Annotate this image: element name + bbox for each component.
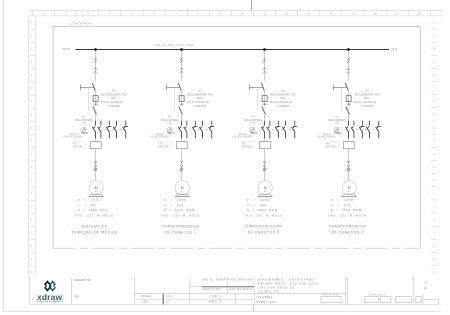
svg-text:L SC=FILTRAGEM: L SC=FILTRAGEM — [63, 136, 82, 139]
motor M1 base pedestal — [89, 194, 103, 197]
motor M4 base pedestal — [342, 194, 356, 197]
svg-text:SAM CARVALHO: SAM CARVALHO — [229, 278, 252, 281]
linkage dashes contact row 3 — [272, 128, 291, 130]
aux label under contactor 3 — [232, 134, 251, 138]
svg-text:SECCIONADORA FUS.: SECCIONADORA FUS. — [354, 93, 381, 96]
svg-text:DESENHO TEC.: DESENHO TEC. — [74, 279, 92, 282]
svg-text:FL.: FL. — [425, 281, 429, 284]
svg-text:In 100=63A: In 100=63A — [194, 105, 207, 108]
svg-text:In = 12A: In = 12A — [164, 203, 185, 207]
fuse of Q3 — [264, 96, 266, 102]
svg-text:M: M — [433, 179, 435, 182]
cable marks to motor 1 — [94, 161, 97, 171]
motor M3 circle — [258, 181, 272, 195]
branch 3 name label — [245, 224, 283, 234]
title block dividers — [30, 277, 439, 305]
svg-text:-Q3: -Q3 — [280, 90, 285, 93]
contactor K1 coil circle — [81, 128, 86, 133]
svg-text:DE CANECOS 3: DE CANECOS 3 — [332, 230, 364, 234]
aux label under contactor 2 — [149, 134, 168, 138]
drawing frame top — [53, 26, 420, 28]
svg-text:3P F.10: 63A-80A (F): 3P F.10: 63A-80A (F) — [187, 101, 210, 104]
svg-text:TOMOÇÃO DE MEDIAS: TOMOÇÃO DE MEDIAS — [71, 229, 118, 234]
motor 4 spec text — [328, 198, 366, 217]
top ruler band — [29, 11, 444, 16]
xdraw logo emblem — [45, 282, 55, 291]
fuse of Q4 — [348, 96, 350, 102]
svg-text:DE CANECOS 1: DE CANECOS 1 — [165, 230, 197, 234]
svg-text:14: 14 — [329, 12, 333, 16]
svg-text:NH1: NH1 — [111, 97, 117, 100]
contactor K1 label text — [75, 117, 93, 125]
svg-text:1:500: 1:500 — [142, 300, 149, 303]
svg-text:SISTEMA DE: SISTEMA DE — [82, 224, 108, 228]
drawing frame bottom dashed — [53, 247, 420, 249]
svg-text:L SC=FILTRAGEM: L SC=FILTRAGEM — [149, 136, 168, 139]
overload relay F4 text box — [325, 142, 338, 149]
overload relay F4 box on wire — [343, 142, 354, 149]
svg-text:NSC+CONTENS: NSC+CONTENS — [328, 120, 346, 122]
svg-text:O: O — [433, 153, 435, 156]
switch T-bar handle Q3 — [249, 85, 263, 91]
svg-text:SECCIONADORA FUS.: SECCIONADORA FUS. — [101, 93, 128, 96]
motor M4 circle — [342, 181, 356, 195]
svg-text:TRANSPORTADOR: TRANSPORTADOR — [329, 224, 367, 228]
motor M2 base pedestal — [175, 194, 189, 197]
svg-text:DESENHO Nº: DESENHO Nº — [369, 293, 386, 296]
svg-text:TAG: 231 M MOL3: TAG: 231 M MOL3 — [244, 213, 282, 217]
revision boxes — [321, 297, 421, 303]
value text block Q1 — [101, 90, 128, 108]
svg-text:RT=7,6A: RT=7,6A — [242, 145, 252, 148]
svg-text:SECCIONADORA FUS.: SECCIONADORA FUS. — [187, 93, 214, 96]
motor 2 spec text — [161, 198, 199, 217]
svg-text:RT=7,6A: RT=7,6A — [73, 145, 83, 148]
linkage dashes contact row 1 — [103, 128, 122, 130]
svg-text:N: N — [434, 166, 436, 169]
wire branch 3 drop from bus — [264, 50, 266, 182]
dark approval row line — [202, 286, 255, 288]
svg-text:REF.:: REF.: — [75, 296, 81, 299]
svg-text:N. FL.: N. FL. — [166, 295, 173, 298]
svg-text:NH1: NH1 — [364, 97, 370, 100]
title block texts — [74, 278, 252, 303]
fold mark top — [250, 0, 252, 11]
contactor K2 coil circle — [167, 128, 172, 133]
switch Q3 upper blade — [261, 83, 264, 91]
svg-text:U: U — [434, 74, 436, 77]
left ruler band — [29, 16, 35, 277]
branch 2 name label — [162, 224, 200, 234]
svg-text:In 100=63A: In 100=63A — [277, 105, 290, 108]
svg-text:TAG: 231 M MOLD: TAG: 231 M MOLD — [75, 213, 114, 217]
linkage dashes contact row 2 — [189, 128, 208, 130]
svg-text:SOLUTIONS IN DRAWINGS: SOLUTIONS IN DRAWINGS — [36, 300, 63, 303]
drawing frame left — [52, 27, 54, 249]
svg-text:3P F.10: 63A-80A (F): 3P F.10: 63A-80A (F) — [101, 101, 124, 104]
svg-text:2,2A: 2,2A — [334, 122, 339, 125]
svg-text:-Q4: -Q4 — [364, 90, 369, 93]
branch 1 name label — [71, 224, 118, 234]
motor M1 circle — [89, 181, 103, 195]
overload relay F2 box on wire — [176, 142, 187, 149]
mechanical linkage line Q2 — [173, 87, 175, 110]
svg-text:P = 1CV+: P = 1CV+ — [78, 198, 101, 202]
svg-text:11: 11 — [263, 12, 266, 16]
svg-text:-Q1: -Q1 — [111, 90, 116, 93]
svg-text:R: R — [434, 113, 436, 116]
svg-text:PROJETO Nº: PROJETO Nº — [323, 293, 340, 296]
switch Q4 lower blade — [346, 107, 350, 115]
contactor K2 label text — [161, 117, 179, 125]
motor 1 spec text — [75, 198, 114, 217]
cable slash marks branch 1 — [94, 58, 97, 63]
junction node branch 2 tap — [180, 48, 183, 51]
fuse of Q2 — [181, 96, 183, 102]
svg-text:SECCIONADORA FUS.: SECCIONADORA FUS. — [270, 93, 297, 96]
svg-text:In = 12A: In = 12A — [331, 203, 352, 207]
svg-text:In 100=63A: In 100=63A — [361, 105, 374, 108]
svg-text:P = 10HP: P = 10HP — [331, 198, 354, 202]
mechanical linkage line Q1 — [87, 87, 89, 110]
drawing frame right — [419, 27, 421, 249]
switch Q4 upper blade — [345, 83, 348, 91]
overload relay F1 text box — [72, 142, 85, 149]
linkage dashes contact row 4 — [356, 128, 375, 130]
svg-text:18: 18 — [418, 12, 422, 16]
svg-text:12: 12 — [285, 12, 289, 16]
svg-text:10%, 3x, 380V, 60Hz, 1000A: 10%, 3x, 380V, 60Hz, 1000A — [154, 44, 194, 47]
fuse lower terminal tick 4 — [347, 103, 351, 105]
svg-text:DATA: DATA — [211, 295, 217, 298]
motor 3 spec text — [244, 198, 282, 217]
svg-text:P = 10HP: P = 10HP — [164, 198, 187, 202]
svg-text:3P F.10: 63A-80A (F): 3P F.10: 63A-80A (F) — [354, 101, 377, 104]
svg-text:3P F.10: 63A-80A (F): 3P F.10: 63A-80A (F) — [270, 101, 293, 104]
switch T-bar handle Q4 — [333, 85, 347, 91]
wire branch 2 drop from bus — [181, 50, 183, 182]
svg-text:H: H — [434, 245, 436, 248]
cable marks to motor 4 — [347, 161, 350, 171]
overload relay F2 text box — [158, 142, 171, 149]
svg-text:N = 1800 RPM: N = 1800 RPM — [331, 208, 362, 212]
svg-text:230=008=000: 230=008=000 — [71, 22, 93, 26]
svg-text:TRANSPORTADOR: TRANSPORTADOR — [245, 224, 283, 228]
switch T-bar handle Q2 — [166, 85, 180, 91]
svg-text:NSC+CONTENS: NSC+CONTENS — [244, 120, 262, 122]
switch Q1 lower blade — [93, 107, 97, 115]
fuse lower terminal tick 3 — [263, 103, 267, 105]
svg-text:Q: Q — [433, 127, 435, 130]
contactor K3 coil circle — [250, 128, 255, 133]
contactor K3 pole contacts row — [261, 121, 297, 139]
aux label under contactor 1 — [63, 134, 82, 138]
motor M2 circle — [175, 181, 189, 195]
svg-text:LP LIBELL.: LP LIBELL. — [256, 295, 274, 299]
mechanical linkage line Q3 — [256, 87, 258, 110]
contactor K1 pole contacts row — [92, 121, 128, 139]
svg-text:L SC=FILTRAGEM: L SC=FILTRAGEM — [316, 136, 335, 139]
conductor chevrons branch 1 — [94, 68, 97, 73]
svg-text:-Q2: -Q2 — [197, 90, 202, 93]
description block text — [258, 277, 319, 293]
switch Q2 lower blade — [179, 107, 183, 115]
wire branch 1 drop from bus — [95, 50, 97, 182]
svg-text:16: 16 — [374, 12, 378, 16]
cable slash marks branch 3 — [263, 58, 266, 63]
svg-text:ESCALA: ESCALA — [141, 295, 151, 298]
svg-text:13: 13 — [307, 12, 311, 16]
outer sheet edge left — [2, 0, 4, 311]
switch T-bar handle Q1 — [80, 85, 94, 91]
svg-text:In = 12A: In = 12A — [247, 203, 268, 207]
svg-text:L SC=FILTRAGEM: L SC=FILTRAGEM — [232, 136, 251, 139]
svg-text:15: 15 — [351, 12, 355, 16]
cable marks to motor 2 — [180, 161, 183, 171]
svg-text:2,2A: 2,2A — [250, 122, 255, 125]
cable slash marks branch 4 — [347, 58, 350, 63]
svg-text:NSC+CONTENS: NSC+CONTENS — [161, 120, 179, 122]
value text block Q3 — [270, 90, 297, 108]
svg-text:TRANSPORTADOR: TRANSPORTADOR — [162, 224, 200, 228]
svg-text:RT=7,6A: RT=7,6A — [159, 145, 169, 148]
svg-text:N = 1800 RPV: N = 1800 RPV — [78, 208, 109, 212]
switch Q1 upper blade — [92, 83, 95, 91]
aux label under contactor 4 — [316, 134, 335, 138]
svg-text:2,2A: 2,2A — [81, 122, 86, 125]
switch Q2 upper blade — [178, 83, 181, 91]
fuse of Q1 — [95, 96, 97, 102]
svg-text:G: G — [433, 258, 435, 261]
junction node branch 4 tap — [347, 48, 350, 51]
svg-text:N = 1800 RPM: N = 1800 RPM — [164, 208, 195, 212]
svg-text:-W1 P: -W1 P — [62, 48, 70, 51]
value text block Q4 — [354, 90, 381, 108]
svg-text:RT=7,6A: RT=7,6A — [326, 145, 336, 148]
mechanical linkage line Q4 — [340, 87, 342, 110]
svg-text:In 100=63A: In 100=63A — [108, 105, 121, 108]
conductor chevrons branch 2 — [180, 68, 183, 73]
svg-text:NH1: NH1 — [197, 97, 203, 100]
fold mark below title block — [252, 304, 254, 312]
svg-text:02 BRL/AL: 02 BRL/AL — [258, 289, 281, 293]
svg-text:I = 5A: I = 5A — [78, 203, 97, 207]
outer sheet edge bottom — [3, 310, 441, 312]
switch Q3 lower blade — [262, 107, 266, 115]
svg-text:60 Hz: 60 Hz — [392, 49, 399, 51]
svg-text:NSC+CONTENS: NSC+CONTENS — [75, 120, 93, 122]
cable marks to motor 3 — [263, 161, 266, 171]
overload relay F3 text box — [241, 142, 254, 149]
contactor K3 label text — [244, 117, 262, 125]
svg-text:17: 17 — [396, 12, 400, 16]
fuse lower terminal tick 2 — [180, 103, 184, 105]
junction node branch 3 tap — [263, 48, 266, 51]
svg-text:P = 10HP: P = 10HP — [247, 198, 270, 202]
svg-text:2,2A: 2,2A — [167, 122, 172, 125]
motor M3 base pedestal — [258, 194, 272, 197]
overload relay F1 box on wire — [90, 142, 101, 149]
cable slash marks branch 2 — [180, 58, 183, 63]
bus W1 — [76, 49, 389, 51]
fuse lower terminal tick 1 — [94, 103, 98, 105]
svg-text:NH1: NH1 — [280, 97, 286, 100]
svg-text:APROV.: APROV. — [209, 300, 218, 303]
junction node branch 1 tap — [94, 48, 97, 51]
contactor K2 pole contacts row — [178, 121, 214, 139]
svg-text:N = 1800 RPM: N = 1800 RPM — [247, 208, 278, 212]
conductor chevrons branch 3 — [263, 68, 266, 73]
svg-text:TAG: 231 M MOL2: TAG: 231 M MOL2 — [161, 213, 199, 217]
dark divider escala cell — [162, 294, 164, 305]
right ruler ticks — [431, 29, 437, 266]
svg-text:GRE. EL. RENATO: GRE. EL. RENATO — [202, 278, 228, 281]
svg-text:SENAI CIMAT: SENAI CIMAT — [203, 288, 222, 291]
branch 4 name label — [329, 224, 367, 234]
svg-text:DE CANECOS 2: DE CANECOS 2 — [248, 230, 280, 234]
value text block Q2 — [187, 90, 214, 108]
svg-text:SUBST. TOS.: SUBST. TOS. — [256, 300, 277, 304]
contactor K4 label text — [328, 117, 346, 125]
wire branch 4 drop from bus — [348, 50, 350, 182]
svg-text:MAR TEL SEMAN: MAR TEL SEMAN — [229, 288, 252, 291]
contactor K4 coil circle — [334, 128, 339, 133]
conductor chevrons branch 4 — [347, 68, 350, 73]
svg-text:10: 10 — [241, 12, 245, 16]
svg-text:TAG: 231 M MOL4: TAG: 231 M MOL4 — [328, 213, 366, 217]
contactor K4 pole contacts row — [345, 121, 381, 139]
overload relay F3 box on wire — [259, 142, 270, 149]
